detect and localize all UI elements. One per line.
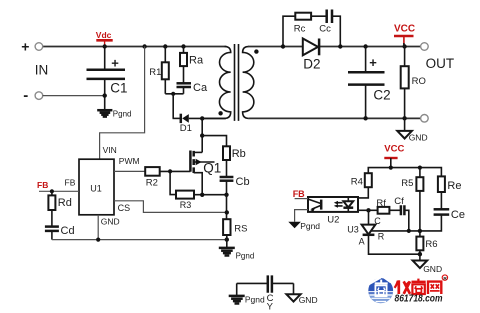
resistor Rd <box>48 191 71 226</box>
svg-text:R4: R4 <box>351 177 363 188</box>
wire feedback top rail <box>368 166 441 177</box>
wire FB net <box>39 189 79 193</box>
net VCC label feedback <box>384 144 404 168</box>
node dots bottom rail <box>363 116 406 120</box>
svg-text:-: - <box>23 87 28 104</box>
optocoupler U2 <box>308 197 358 226</box>
ground Pgnd under RS <box>219 248 254 261</box>
capacitor C1 <box>87 47 128 110</box>
shunt regulator U3 <box>347 210 420 254</box>
capacitor C2 <box>348 47 391 119</box>
transistor Q1 <box>190 151 221 195</box>
ground GND under R6 <box>413 254 442 274</box>
svg-text:+: + <box>21 39 29 55</box>
wire clamp node <box>165 92 183 119</box>
svg-text:GND: GND <box>299 295 318 305</box>
capacitor Cc <box>319 10 332 35</box>
svg-text:R3: R3 <box>180 200 192 210</box>
svg-text:Cc: Cc <box>319 24 331 35</box>
node source R3 Cb <box>200 193 229 220</box>
resistor Rb <box>223 146 246 176</box>
node drain column <box>200 116 227 152</box>
svg-text:+: + <box>111 56 119 71</box>
transformer T1 primary winding <box>203 47 231 119</box>
svg-text:Rc: Rc <box>294 24 306 35</box>
wire secondary bottom rail <box>249 117 421 119</box>
svg-text:R: R <box>378 232 385 242</box>
resistor R2 <box>145 167 190 189</box>
resistor R4 <box>351 173 372 198</box>
watermark logo emblem <box>368 277 393 303</box>
wire input minus to C1 <box>43 95 105 97</box>
wire CS net <box>114 201 229 215</box>
svg-text:Rf: Rf <box>376 198 386 209</box>
svg-text:FB: FB <box>65 178 76 188</box>
svg-text:Ra: Ra <box>189 55 204 67</box>
resistor RO <box>401 47 426 119</box>
node junctions on input rail <box>103 44 186 98</box>
terminal OUT plus <box>421 43 429 51</box>
resistor R5 <box>401 168 423 231</box>
wire rail to VIN pin <box>100 47 145 160</box>
svg-text:U2: U2 <box>327 215 339 226</box>
resistor RS <box>223 219 247 247</box>
svg-text:RO: RO <box>412 76 426 87</box>
svg-text:R5: R5 <box>401 178 413 189</box>
svg-text:Cf: Cf <box>394 196 404 207</box>
resistor R6 <box>416 231 437 257</box>
svg-text:Pgnd: Pgnd <box>236 252 255 261</box>
capacitor Cf <box>394 196 409 231</box>
svg-text:GND: GND <box>423 264 442 274</box>
node gate branch <box>168 169 176 194</box>
svg-text:Vdc: Vdc <box>96 30 112 40</box>
svg-text:A: A <box>359 237 365 247</box>
svg-text:C: C <box>374 216 381 226</box>
svg-text:D2: D2 <box>303 57 320 72</box>
capacitor Ca <box>177 82 208 94</box>
svg-text:Cb: Cb <box>236 176 250 188</box>
capacitor Cd <box>45 225 75 239</box>
resistor Re <box>438 176 462 209</box>
ground GND at CY <box>286 294 317 305</box>
node dots secondary rail <box>281 44 407 48</box>
svg-text:FB: FB <box>37 180 48 190</box>
svg-text:R: R <box>443 276 447 282</box>
svg-text:C2: C2 <box>373 88 390 103</box>
svg-text:FB: FB <box>293 189 305 199</box>
terminal input minus <box>23 87 42 104</box>
svg-text:OUT: OUT <box>426 56 455 71</box>
svg-text:Rd: Rd <box>58 197 72 209</box>
ground GND output <box>397 118 427 142</box>
terminal input plus <box>21 39 42 55</box>
svg-text:Cd: Cd <box>61 225 75 237</box>
wire U2 anode pin to node <box>358 208 370 212</box>
svg-text:Ca: Ca <box>193 82 208 94</box>
resistor R1 <box>149 47 169 94</box>
transformer phasing dot primary <box>218 111 222 115</box>
wire secondary top rail <box>248 46 421 48</box>
svg-text:R2: R2 <box>146 178 158 189</box>
wire snubber loop <box>283 16 340 46</box>
svg-text:+: + <box>369 55 377 70</box>
svg-text:CS: CS <box>118 203 131 213</box>
svg-text:VIN: VIN <box>103 145 117 155</box>
diode D1 <box>173 114 227 135</box>
ground Pgnd at CY <box>229 295 265 305</box>
svg-text:U3: U3 <box>347 224 359 234</box>
svg-text:IN: IN <box>35 63 49 78</box>
capacitor Cb <box>220 176 250 195</box>
wire top input rail <box>43 46 227 48</box>
svg-text:Pgnd: Pgnd <box>300 221 320 231</box>
svg-text:Q1: Q1 <box>203 161 221 176</box>
wire U2 emitter to ground <box>295 210 308 222</box>
svg-text:Ce: Ce <box>451 209 465 221</box>
svg-text:R6: R6 <box>425 239 437 250</box>
wire PWM to R2 <box>114 170 145 172</box>
node ref and Cf <box>407 229 422 233</box>
net VCC label output <box>394 24 415 47</box>
svg-text:GND: GND <box>409 133 428 143</box>
svg-text:Re: Re <box>447 180 461 192</box>
svg-text:GND: GND <box>101 216 120 226</box>
ground Pgnd U2 (filled) <box>288 221 320 231</box>
terminal OUT minus <box>421 115 429 123</box>
svg-text:Pgnd: Pgnd <box>245 295 265 305</box>
svg-text:U1: U1 <box>90 184 102 194</box>
svg-text:VCC: VCC <box>394 24 415 35</box>
svg-text:PWM: PWM <box>119 156 140 166</box>
diode D2 <box>303 39 321 72</box>
wire U2 collector pin FB <box>295 198 308 200</box>
ground Pgnd under C1 <box>97 110 131 119</box>
IC U1 <box>65 145 140 227</box>
resistor R3 <box>176 191 227 210</box>
net Vdc label <box>96 30 113 45</box>
svg-text:Rb: Rb <box>232 148 246 160</box>
svg-text:R1: R1 <box>149 67 161 78</box>
resistor Ra <box>180 47 204 84</box>
svg-text:861718.com: 861718.com <box>395 294 443 305</box>
svg-text:Pgnd: Pgnd <box>113 110 132 119</box>
wire primary ground rail <box>52 237 229 241</box>
resistor Rc <box>294 13 311 35</box>
svg-text:D1: D1 <box>180 123 192 134</box>
svg-text:RS: RS <box>234 224 247 235</box>
svg-text:C1: C1 <box>110 81 127 96</box>
resistor Rf <box>369 198 401 214</box>
transformer T1 secondary winding <box>243 47 254 119</box>
svg-text:VCC: VCC <box>384 144 404 155</box>
wire U1 GND pin <box>97 215 99 240</box>
capacitor Ce <box>420 209 465 231</box>
watermark text yishangwang <box>395 275 448 294</box>
transformer phasing dot secondary <box>254 49 258 53</box>
svg-text:Y: Y <box>267 301 274 312</box>
transformer T1 core <box>235 44 239 121</box>
capacitor CY <box>237 275 294 312</box>
